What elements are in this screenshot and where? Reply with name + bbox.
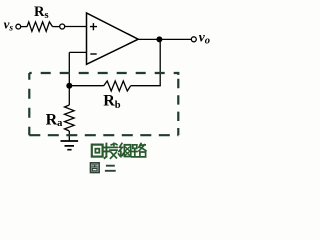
wire node to Rb [69, 85, 103, 87]
feedback network dashed box [29, 72, 178, 135]
resistor Rb [104, 81, 131, 91]
op-amp + pin mark [90, 23, 97, 30]
terminal node between Rs and op-amp [60, 24, 65, 29]
wire output down to Rb [159, 39, 161, 85]
label feedback network (drawn CJK glyphs) [92, 143, 146, 158]
wire Rb to output branch [131, 85, 161, 87]
wire - input down to feedback node [68, 52, 70, 85]
op-amp - pin mark [90, 53, 96, 55]
wire - input [69, 51, 86, 53]
wire to + input [53, 26, 60, 28]
junction feedback node [66, 83, 72, 89]
ground [61, 141, 79, 150]
terminal vo [191, 37, 196, 42]
glyph Shou (give) [104, 143, 117, 158]
junction output node [156, 36, 162, 42]
glyph Lu (road) [132, 144, 146, 157]
glyph Er (two) [106, 166, 115, 171]
glyph Wang (net) [119, 143, 131, 156]
glyph Tu (figure) [91, 163, 100, 173]
wire node down to Ra [68, 86, 70, 105]
wire Ra to ground [68, 131, 70, 141]
op-amp U1 [87, 13, 139, 64]
wire output [138, 38, 191, 40]
terminal vs [16, 24, 21, 29]
resistor Ra [65, 105, 75, 131]
wire [21, 26, 27, 28]
glyph Hui (return) [92, 145, 103, 157]
label figure two (drawn CJK glyphs) [91, 163, 115, 173]
resistor Rs [27, 22, 53, 31]
